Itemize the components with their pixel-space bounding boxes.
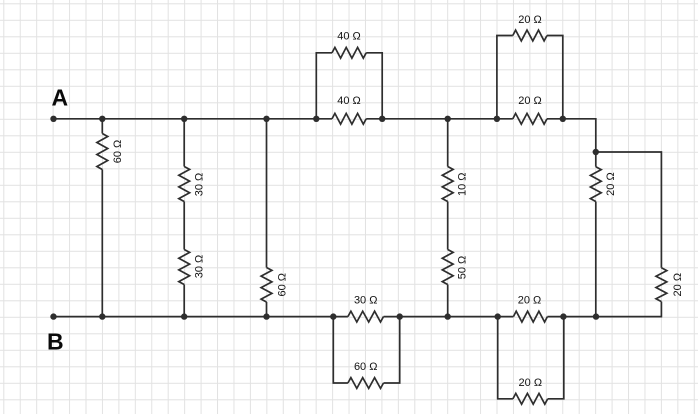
wire 20-ohm bottom loop right lead and riser <box>548 317 564 399</box>
svg-text:60 Ω: 60 Ω <box>354 361 378 373</box>
resistor 50 ohm <box>442 250 453 285</box>
node top bus x=316.9 <box>313 116 319 122</box>
svg-text:40 Ω: 40 Ω <box>337 30 361 42</box>
wire branch 30+30 bottom lead <box>183 285 185 317</box>
svg-text:A: A <box>52 85 69 111</box>
wire right branch 20-ohm top lead <box>595 152 597 167</box>
svg-text:50 Ω: 50 Ω <box>457 256 469 280</box>
svg-text:B: B <box>47 329 64 355</box>
wire 20-ohm top parallel loop left riser and top lead <box>497 36 513 119</box>
node top bus x=267.2 <box>263 116 269 122</box>
svg-text:60 Ω: 60 Ω <box>112 140 124 164</box>
svg-text:20 Ω: 20 Ω <box>518 14 542 26</box>
resistor 60 ohm third branch <box>261 268 272 303</box>
wire between series 30-ohm resistors <box>183 202 185 250</box>
wire branch 30+30 top lead <box>183 119 185 167</box>
wire branch 60-ohm (third) bottom lead <box>266 302 268 317</box>
node bottom bus x=102.7 <box>99 313 105 319</box>
wire bottom bus right segment to tee node <box>547 316 596 318</box>
svg-text:20 Ω: 20 Ω <box>519 377 543 389</box>
resistor 20 ohm top parallel loop <box>513 30 547 41</box>
resistor 20 ohm inline bottom bus <box>513 311 547 322</box>
wire branch 60-ohm bottom lead <box>101 170 103 317</box>
resistor 30 ohm upper of series pair <box>179 167 190 202</box>
resistor 30 ohm lower of series pair <box>179 250 190 285</box>
resistor 60 ohm left branch <box>97 134 108 170</box>
node bottom bus x=184.2 <box>181 313 187 319</box>
terminal B node <box>50 313 56 319</box>
svg-text:20 Ω: 20 Ω <box>672 273 684 297</box>
resistor 60 ohm bottom loop <box>348 378 384 389</box>
wire bottom bus B to 30-ohm inline resistor <box>54 316 348 318</box>
resistor 30 ohm inline bottom bus <box>348 311 384 322</box>
wire between 10-ohm and 50-ohm <box>447 202 449 250</box>
svg-text:10 Ω: 10 Ω <box>457 173 469 197</box>
node bottom bus x=267.2 <box>263 313 269 319</box>
node bottom bus x=333.3 <box>330 313 336 319</box>
wire bottom bus between 30-ohm and 20-ohm inline resistors <box>384 316 514 318</box>
node top bus x=382.9 <box>379 116 385 122</box>
node bottom bus x=596 <box>593 313 599 319</box>
wire 20-ohm top parallel loop right lead and riser <box>547 36 563 119</box>
wire branch 10+50 bottom lead <box>447 285 449 317</box>
resistor 20 ohm bottom loop <box>513 393 548 404</box>
resistor 40 ohm parallel loop <box>332 47 366 58</box>
wire branch 60-ohm (third) top lead <box>266 119 268 268</box>
wire branch 10+50 top lead <box>447 119 449 167</box>
svg-text:60 Ω: 60 Ω <box>276 273 288 297</box>
wire far-right 20-ohm loop top lead and riser <box>596 152 662 268</box>
node top bus x=102.7 <box>99 116 105 122</box>
resistor 10 ohm <box>442 167 453 202</box>
svg-text:30 Ω: 30 Ω <box>354 295 378 307</box>
wire top bus between 40-ohm and 20-ohm inline resistors <box>366 118 513 120</box>
svg-text:40 Ω: 40 Ω <box>337 95 361 107</box>
wire far-right 20-ohm loop bottom lead back to bottom bus <box>596 302 661 317</box>
resistor 40 ohm inline top bus <box>332 113 366 124</box>
node bottom bus x=497.7 <box>495 313 501 319</box>
svg-text:30 Ω: 30 Ω <box>193 255 205 279</box>
wire top bus right end, corner down to mid-right node <box>547 119 596 152</box>
wire 60-ohm bottom loop left drop and lead <box>333 317 348 383</box>
resistor 20 ohm inline top bus <box>513 113 547 124</box>
terminal A node <box>50 116 56 122</box>
wire 20-ohm bottom loop left drop and lead <box>498 317 513 399</box>
wire branch 60-ohm top lead <box>101 119 103 134</box>
node mid-right x=595.8 <box>593 149 599 155</box>
node top bus x=562.8 <box>560 116 566 122</box>
svg-text:20 Ω: 20 Ω <box>518 295 542 307</box>
node bottom bus x=445.3 <box>445 313 451 319</box>
svg-text:20 Ω: 20 Ω <box>518 95 542 107</box>
node top bus x=184.2 <box>181 116 187 122</box>
resistor 20 ohm far-right loop <box>656 268 667 302</box>
wire top bus A from terminal to 40-ohm inline resistor <box>54 118 333 120</box>
svg-text:30 Ω: 30 Ω <box>193 173 205 197</box>
node bottom bus x=563.4 <box>560 313 566 319</box>
node top bus x=445.3 <box>445 116 451 122</box>
wire 60-ohm bottom loop right lead and riser <box>384 317 400 383</box>
node bottom bus x=399.7 <box>397 313 403 319</box>
wire 40-ohm parallel loop left riser and top lead <box>316 53 332 119</box>
wire right branch 20-ohm bottom lead <box>595 202 597 317</box>
wire 40-ohm parallel loop right lead and riser <box>366 53 382 119</box>
node top bus x=497.6 <box>494 116 500 122</box>
svg-text:20 Ω: 20 Ω <box>605 172 617 196</box>
resistor 20 ohm right branch <box>590 167 601 202</box>
